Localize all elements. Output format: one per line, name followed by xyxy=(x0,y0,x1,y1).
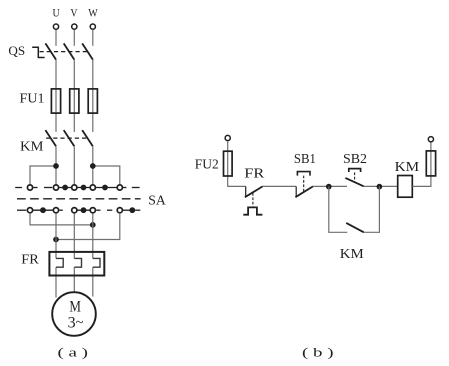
svg-text:U: U xyxy=(53,6,60,20)
wire V terminal to QS xyxy=(73,30,75,46)
motor M circle xyxy=(52,292,96,336)
switch QS linkage dashed line xyxy=(40,51,91,53)
thermal relay FR heater element 1 xyxy=(56,258,63,267)
wire branch column3 to outer-right SA terminal xyxy=(93,166,120,184)
switch SA row1 terminal 1 xyxy=(27,185,32,190)
fuse FU1 label xyxy=(20,92,45,107)
wire U terminal to QS xyxy=(55,30,57,46)
wire KM to SA row1 column 3 xyxy=(92,146,94,184)
thermal relay FR contact label xyxy=(244,167,265,182)
switch SA row2 bridge dot 1 xyxy=(40,207,46,213)
wire KM coil to right fuse xyxy=(412,142,431,186)
wire SA row2 terminal4 to FR heater 3 xyxy=(92,214,94,297)
wire SA row2 terminal1 to column3 crossover xyxy=(30,214,93,225)
switch SA row1 bridge dot 3 xyxy=(102,185,108,191)
pushbutton SB2 actuator xyxy=(349,169,361,172)
pushbutton SB1 NC contact blade xyxy=(295,186,313,197)
control terminal right xyxy=(428,137,433,142)
label W phase xyxy=(88,6,98,20)
motor M label xyxy=(69,299,81,316)
wire QS to FU1 phase U xyxy=(55,60,57,132)
switch SA row1 terminal 4 xyxy=(90,185,95,190)
contactor KM main contacts label xyxy=(20,138,44,153)
thermal relay FR NC contact blade xyxy=(245,186,263,197)
contactor KM main contact 3 blade xyxy=(82,130,93,146)
wire W terminal to QS xyxy=(92,30,94,46)
wire SA row2 terminal2 to FR heater 1 xyxy=(55,214,57,298)
caption (b) xyxy=(302,345,334,360)
wire KM aux branch left leg xyxy=(329,186,348,232)
pushbutton SB1 NC contact fixed stub xyxy=(295,186,297,197)
svg-text:FR: FR xyxy=(244,167,265,182)
caption (a) xyxy=(58,345,89,360)
wire KM to SA row1 column 2 xyxy=(73,146,75,184)
contactor KM auxiliary NO contact blade xyxy=(346,223,364,232)
svg-text:FU2: FU2 xyxy=(195,158,219,173)
switch QS pole 3 blade xyxy=(82,43,93,59)
svg-text:( a ): ( a ) xyxy=(58,345,89,360)
svg-text:QS: QS xyxy=(8,43,25,58)
terminal W xyxy=(90,24,95,29)
fuse FU1 element 3 xyxy=(88,89,97,113)
contactor coil KM label xyxy=(395,160,420,175)
terminal U xyxy=(53,24,58,29)
junction column3 y166 xyxy=(90,163,96,169)
node 1 junction xyxy=(326,184,332,190)
fuse FU1 element 2 xyxy=(70,89,79,113)
fuse FU2 body xyxy=(224,151,233,176)
thermal relay FR actuator symbol xyxy=(243,207,262,214)
junction crossover on column1 xyxy=(53,237,59,243)
switch SA row2 terminal 1 xyxy=(27,208,32,213)
label U phase xyxy=(53,6,60,20)
pushbutton SB2 dashed link xyxy=(354,172,356,181)
wire KM to SA row1 column 1 xyxy=(55,146,57,184)
control terminal left xyxy=(225,135,230,140)
thermal relay FR NC contact fixed stub xyxy=(245,186,247,197)
switch SA row1 terminal 3 xyxy=(72,185,77,190)
svg-text:V: V xyxy=(70,6,77,20)
switch SA row2 bridge dot 2 xyxy=(81,207,87,213)
contactor KM linkage dashed line xyxy=(46,137,89,139)
contactor KM main contact 1 blade xyxy=(45,130,56,146)
svg-text:KM: KM xyxy=(20,138,44,153)
svg-text:3~: 3~ xyxy=(68,314,84,331)
pushbutton SB1 actuator xyxy=(297,172,310,176)
wire branch column1 to outer-left SA terminal xyxy=(30,166,56,184)
switch QS pole 1 blade xyxy=(45,43,56,59)
wire QS to FU1 phase V xyxy=(73,60,75,132)
pushbutton SB1 label xyxy=(294,152,316,167)
terminal V xyxy=(72,24,77,29)
switch SA row2 terminal 5 xyxy=(117,208,122,213)
svg-text:SB2: SB2 xyxy=(343,152,367,167)
fuse right body xyxy=(426,151,435,176)
switch SA row2 terminal 2 xyxy=(53,208,58,213)
switch SA row2 bridge dot 3 xyxy=(129,207,135,213)
svg-text:M: M xyxy=(69,299,81,316)
switch SA row1 terminal 2 xyxy=(53,185,58,190)
node 2 junction xyxy=(377,184,383,190)
wire FR contact to SB1 xyxy=(263,185,297,187)
pushbutton SB1 dashed link xyxy=(303,176,305,192)
svg-text:FU1: FU1 xyxy=(20,92,45,107)
switch SA middle dashed linkage line xyxy=(17,198,141,200)
wire left terminal through FU2 to FR contact xyxy=(228,141,246,186)
switch SA row1 bridge dot 1 xyxy=(62,185,68,191)
svg-text:KM: KM xyxy=(395,160,420,175)
wire SA row2 terminal5 to column1 crossover xyxy=(56,214,120,240)
pushbutton SB2 label xyxy=(343,152,367,167)
switch QS label xyxy=(8,43,25,58)
thermal relay FR box xyxy=(49,252,104,276)
wire SB1 to node 1 xyxy=(313,185,347,187)
wire SB2 to node 2 xyxy=(364,185,398,187)
svg-text:KM: KM xyxy=(340,247,365,262)
junction column1 y166 xyxy=(53,163,59,169)
pushbutton SB2 NO contact blade xyxy=(345,178,363,186)
svg-text:W: W xyxy=(88,6,98,20)
fuse FU2 label xyxy=(195,158,219,173)
svg-text:( b ): ( b ) xyxy=(302,345,334,360)
wire QS to FU1 phase W xyxy=(92,60,94,132)
svg-text:FR: FR xyxy=(21,252,39,267)
svg-text:SB1: SB1 xyxy=(294,152,316,167)
thermal relay FR label xyxy=(21,252,39,267)
switch SA row2 contact line segments xyxy=(17,209,140,211)
switch SA row1 terminal 5 xyxy=(117,185,122,190)
switch SA row1 bridge dot 2 xyxy=(81,185,87,191)
switch SA row2 terminal 4 xyxy=(90,208,95,213)
fuse FU1 element 1 xyxy=(51,89,60,113)
motor 3-phase label xyxy=(68,314,84,331)
thermal relay FR actuation dashed link xyxy=(252,193,254,207)
junction crossover on column3 xyxy=(90,222,96,228)
switch SA label xyxy=(148,193,166,208)
label V phase xyxy=(70,6,77,20)
contactor coil KM body xyxy=(398,176,413,198)
thermal relay FR heater element 3 xyxy=(93,258,100,267)
thermal relay FR heater element 2 xyxy=(74,258,81,267)
contactor KM auxiliary contact label xyxy=(340,247,365,262)
switch QS pole 2 blade xyxy=(64,43,75,59)
switch SA row1 contact line segments xyxy=(15,187,139,189)
switch QS handle xyxy=(32,47,44,57)
switch SA row2 terminal 3 xyxy=(72,208,77,213)
svg-text:SA: SA xyxy=(148,193,166,208)
wire KM aux branch right leg xyxy=(364,186,380,232)
contactor KM main contact 2 blade xyxy=(64,130,75,146)
wire SA row2 terminal3 to FR heater 2 xyxy=(73,214,75,293)
